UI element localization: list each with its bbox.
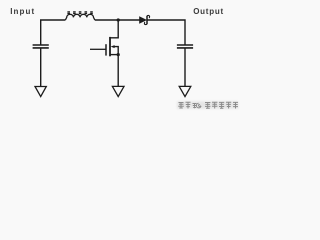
mosfet Q1 source stub (110, 54, 118, 56)
wire inductor to diode anode (95, 19, 140, 21)
diode D1 Schottky hook bottom (144, 22, 147, 25)
wire diode cathode to top-right corner and down to capacitor (147, 20, 185, 45)
mosfet Q1 gate lead (90, 48, 106, 50)
wire C2 to ground (184, 48, 186, 86)
mosfet Q1 channel bar (109, 37, 111, 56)
wire top-left corner and left branch down to capacitor (41, 20, 66, 45)
wire C1 to ground (40, 48, 42, 86)
mosfet Q1 body stub with arrow to channel (114, 47, 119, 55)
mosfet Q1 gate bar (105, 44, 107, 55)
junction dot body-source (117, 53, 120, 56)
watermark text bottom right (177, 101, 239, 109)
inductor L1 core dashes (two dashed lines) (67, 11, 92, 13)
wire source down to ground (117, 55, 119, 87)
ground under C2 (179, 86, 191, 96)
ground under C1 (35, 87, 46, 97)
capacitor C2 (output) plates (177, 44, 193, 46)
diode D1 Schottky hook top (147, 15, 150, 18)
mosfet Q1 drain riser and drain stub (110, 20, 118, 38)
capacitor C1 (input) plates (33, 44, 49, 46)
diode D1 (Schottky) triangle (139, 16, 147, 24)
diode D1 cathode bar (146, 16, 148, 24)
svg-text:Input: Input (10, 7, 35, 16)
ground under mosfet (112, 86, 124, 96)
inductor L1 coil (65, 14, 94, 20)
node A junction dot (inductor/diode/drain) (117, 18, 120, 21)
svg-text:Output: Output (193, 7, 224, 16)
